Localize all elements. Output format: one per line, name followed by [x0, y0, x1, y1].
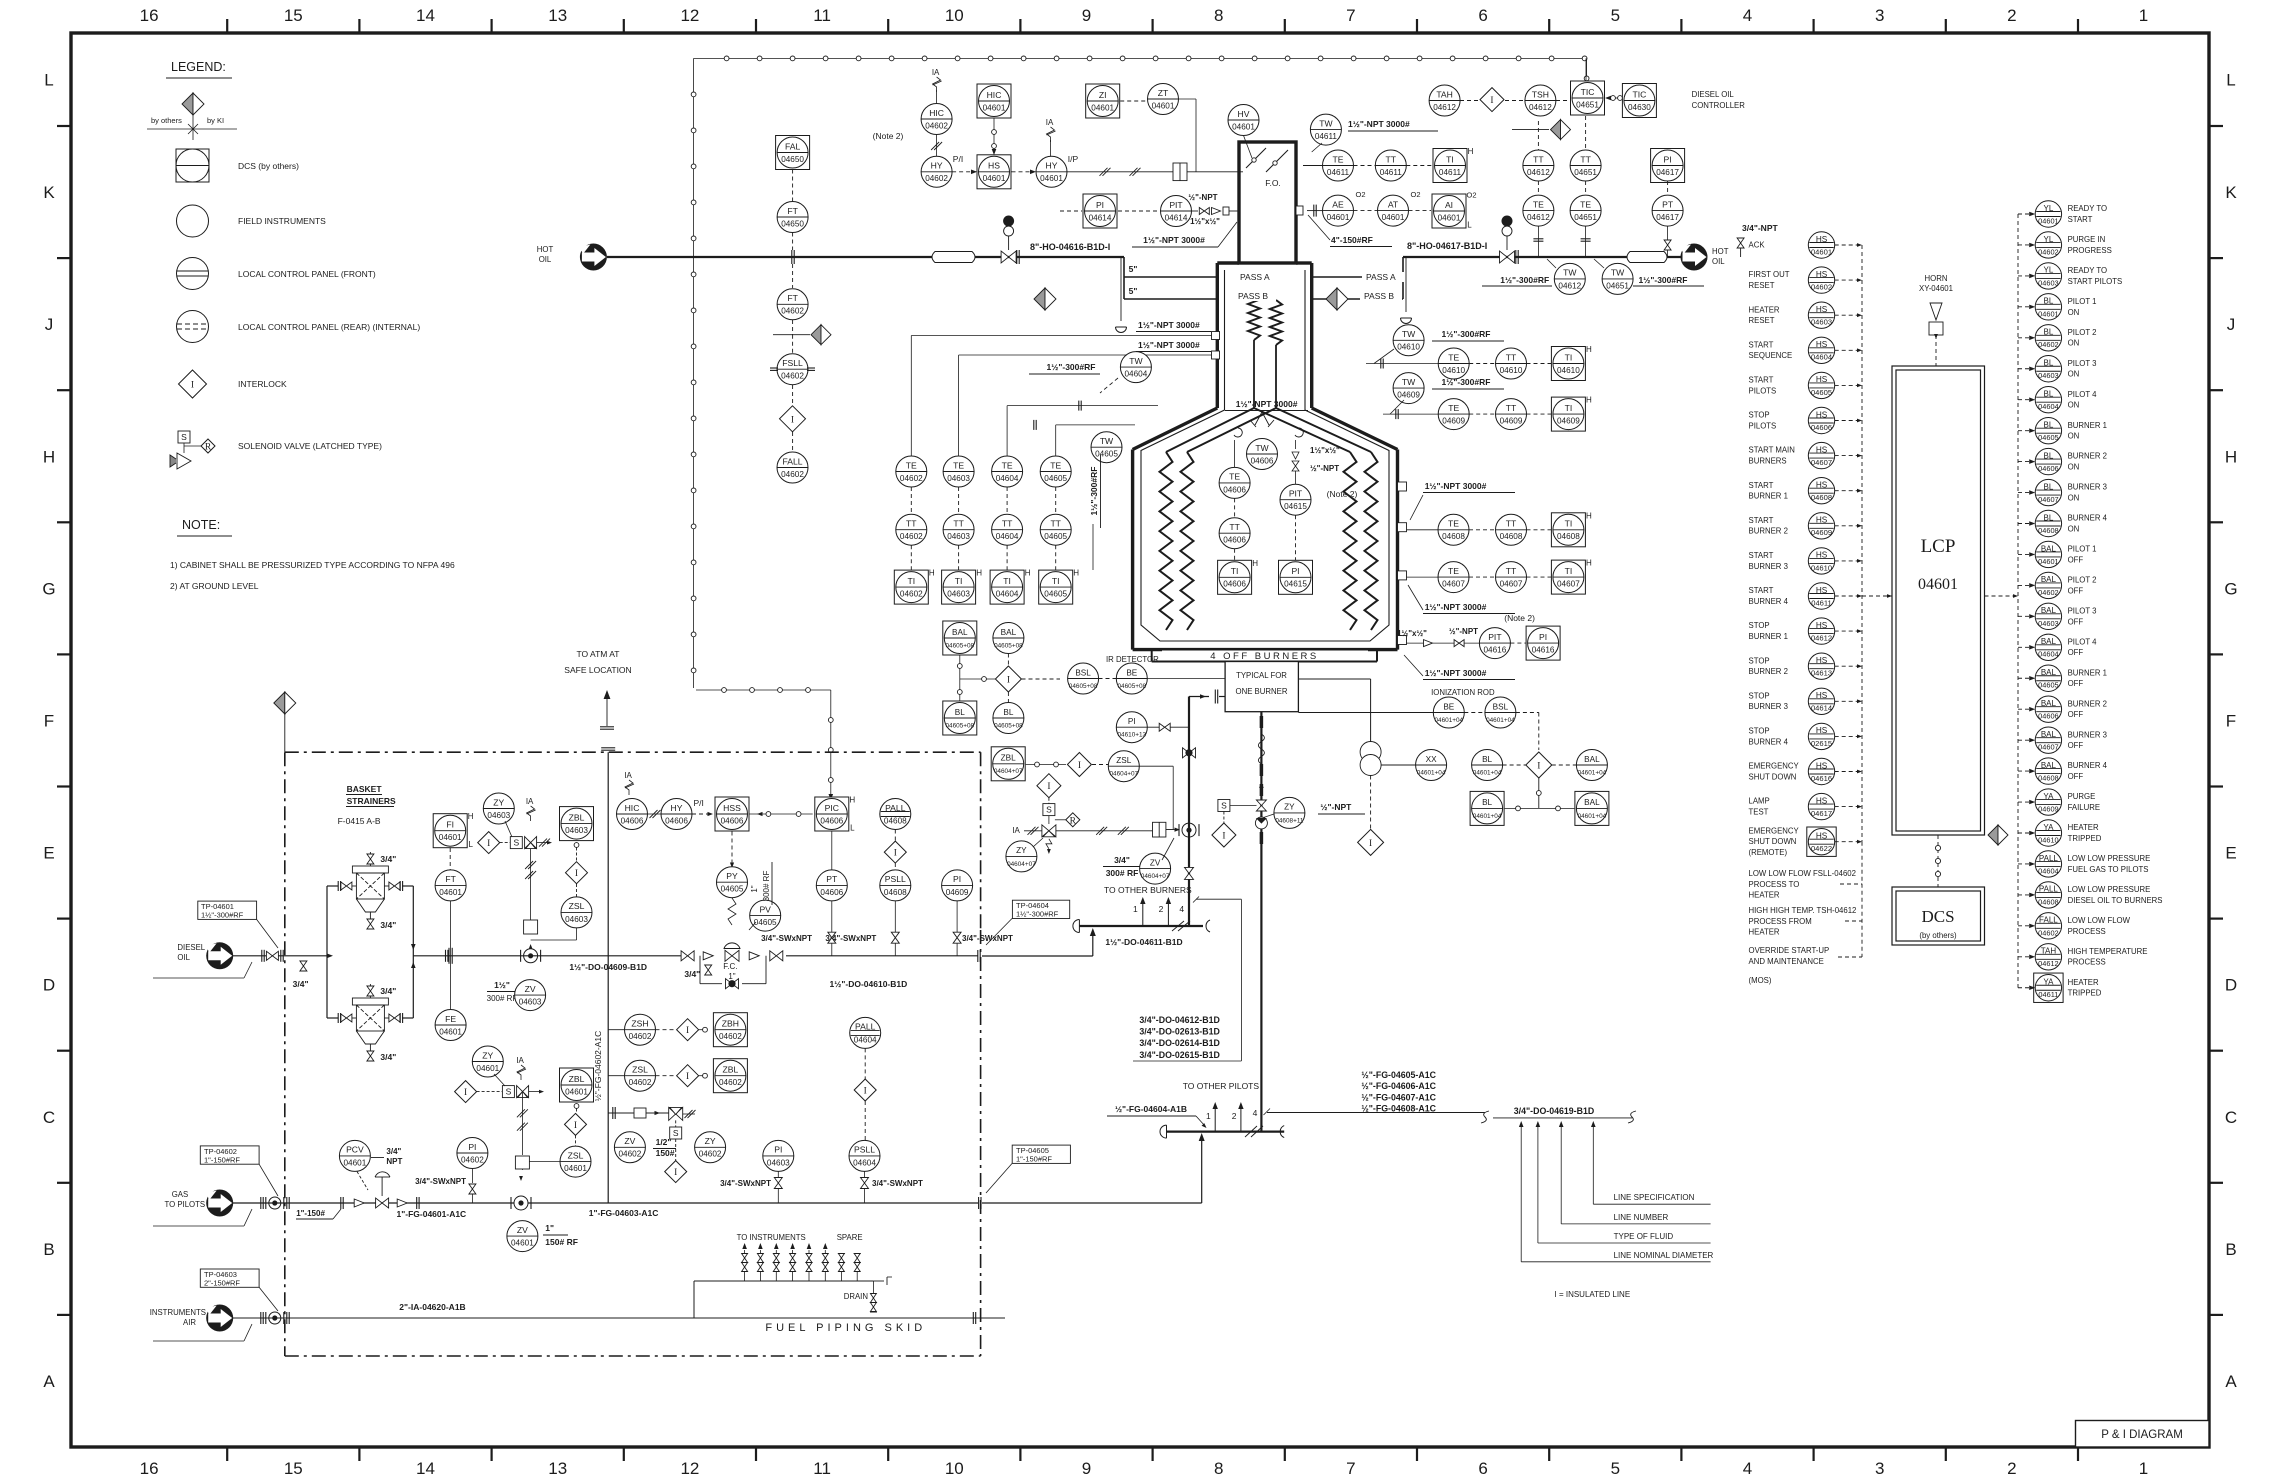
svg-text:04602: 04602 — [2038, 340, 2059, 349]
svg-text:04601: 04601 — [983, 174, 1006, 183]
svg-text:BURNERS: BURNERS — [1749, 457, 1787, 466]
svg-text:STOP: STOP — [1749, 621, 1770, 630]
svg-text:BAL: BAL — [2041, 761, 2057, 770]
svg-text:LEGEND:: LEGEND: — [171, 60, 226, 74]
svg-text:DIESEL OIL: DIESEL OIL — [1692, 90, 1735, 99]
svg-text:04603: 04603 — [767, 1158, 790, 1167]
svg-text:4 OFF BURNERS: 4 OFF BURNERS — [1210, 651, 1319, 662]
svg-text:1½"-NPT 3000#: 1½"-NPT 3000# — [1348, 119, 1410, 129]
svg-text:TE: TE — [1448, 566, 1459, 576]
svg-text:PI: PI — [1539, 632, 1547, 642]
svg-text:IA: IA — [932, 68, 940, 77]
svg-text:ZY: ZY — [705, 1136, 716, 1146]
svg-text:YL: YL — [2044, 235, 2054, 244]
svg-text:LOW LOW FLOW FSLL-04602: LOW LOW FLOW FSLL-04602 — [1749, 869, 1856, 878]
svg-text:04604: 04604 — [853, 1158, 876, 1167]
svg-text:YA: YA — [2043, 823, 2054, 832]
svg-text:04606: 04606 — [1223, 536, 1246, 545]
svg-text:04602: 04602 — [925, 121, 948, 130]
svg-text:1½"-NPT 3000#: 1½"-NPT 3000# — [1143, 235, 1205, 245]
svg-text:ON: ON — [2068, 463, 2080, 472]
svg-text:7: 7 — [1346, 6, 1355, 25]
svg-text:TE: TE — [1533, 199, 1544, 209]
svg-text:HEATER: HEATER — [1749, 891, 1780, 900]
svg-text:3/4"-SWxNPT: 3/4"-SWxNPT — [872, 1179, 923, 1188]
svg-text:6: 6 — [1478, 6, 1487, 25]
svg-text:OIL: OIL — [177, 953, 190, 962]
svg-text:TW: TW — [1563, 268, 1577, 278]
svg-text:8: 8 — [1214, 6, 1223, 25]
svg-text:04613: 04613 — [1811, 669, 1832, 678]
svg-text:04614: 04614 — [1165, 213, 1188, 222]
svg-text:HS: HS — [1816, 340, 1828, 349]
svg-text:START: START — [1749, 340, 1774, 349]
svg-text:9: 9 — [1082, 1459, 1091, 1478]
svg-text:I: I — [1490, 96, 1493, 106]
svg-text:AT: AT — [1388, 199, 1399, 209]
svg-text:04617: 04617 — [1811, 809, 1832, 818]
svg-text:½"-FG-04606-A1C: ½"-FG-04606-A1C — [1361, 1081, 1436, 1091]
svg-text:PASS B: PASS B — [1238, 291, 1268, 301]
svg-text:13: 13 — [548, 1459, 567, 1478]
svg-text:2"-IA-04620-A1B: 2"-IA-04620-A1B — [399, 1302, 465, 1312]
svg-text:H: H — [1025, 569, 1031, 578]
svg-text:1½"-NPT 3000#: 1½"-NPT 3000# — [1425, 481, 1487, 491]
svg-text:BL: BL — [1482, 755, 1492, 764]
svg-text:BE: BE — [1443, 702, 1454, 711]
svg-text:S: S — [506, 1087, 512, 1097]
svg-text:BL: BL — [955, 708, 965, 717]
svg-text:04601: 04601 — [1152, 101, 1175, 110]
svg-text:FIRST OUT: FIRST OUT — [1749, 270, 1790, 279]
svg-text:04601: 04601 — [2038, 216, 2059, 225]
svg-text:04610: 04610 — [1557, 366, 1580, 375]
svg-text:C: C — [2225, 1108, 2237, 1127]
svg-text:TAH: TAH — [1436, 89, 1453, 99]
svg-text:3/4": 3/4" — [380, 854, 396, 864]
svg-text:04603: 04603 — [2038, 371, 2059, 380]
svg-text:04601+04: 04601+04 — [1473, 813, 1502, 820]
svg-text:ON: ON — [2068, 308, 2080, 317]
svg-text:TI: TI — [1565, 403, 1573, 413]
svg-text:ON: ON — [2068, 524, 2080, 533]
svg-text:PCV: PCV — [346, 1145, 364, 1155]
svg-text:LAMP: LAMP — [1749, 797, 1770, 806]
svg-text:START: START — [1749, 586, 1774, 595]
svg-text:FALL: FALL — [2039, 916, 2058, 925]
svg-text:04609: 04609 — [1500, 417, 1523, 426]
svg-text:OFF: OFF — [2068, 741, 2084, 750]
svg-text:1½"-DO-04610-B1D: 1½"-DO-04610-B1D — [830, 979, 908, 989]
svg-text:04607: 04607 — [1557, 580, 1580, 589]
svg-text:I: I — [1369, 839, 1372, 849]
svg-text:04601: 04601 — [1438, 213, 1461, 222]
svg-text:H: H — [1586, 559, 1592, 568]
svg-text:PALL: PALL — [2039, 885, 2059, 894]
svg-text:1½"-300#RF: 1½"-300#RF — [1500, 275, 1549, 285]
svg-text:STOP: STOP — [1749, 691, 1770, 700]
svg-text:START: START — [2068, 215, 2093, 224]
svg-text:04608: 04608 — [2038, 774, 2059, 783]
svg-text:4: 4 — [1743, 6, 1752, 25]
svg-text:TI: TI — [1565, 519, 1573, 529]
svg-text:TYPE OF FLUID: TYPE OF FLUID — [1614, 1232, 1674, 1241]
svg-text:ZV: ZV — [624, 1136, 635, 1146]
svg-text:1½"-300#RF: 1½"-300#RF — [1442, 329, 1491, 339]
svg-text:I: I — [1537, 762, 1540, 772]
svg-text:04601: 04601 — [2038, 557, 2059, 566]
svg-text:15: 15 — [284, 1459, 303, 1478]
svg-text:1½"-NPT 3000#: 1½"-NPT 3000# — [1425, 602, 1487, 612]
svg-text:TT: TT — [1229, 522, 1240, 532]
svg-text:LINE NUMBER: LINE NUMBER — [1614, 1213, 1669, 1222]
svg-text:TRIPPED: TRIPPED — [2068, 989, 2102, 998]
svg-text:04611: 04611 — [1327, 168, 1350, 177]
svg-text:BL: BL — [1003, 708, 1013, 717]
svg-text:½"-FG-04607-A1C: ½"-FG-04607-A1C — [1361, 1092, 1436, 1102]
svg-text:04609: 04609 — [1442, 417, 1465, 426]
svg-text:3/4"-DO-02614-B1D: 3/4"-DO-02614-B1D — [1139, 1038, 1219, 1048]
svg-text:TE: TE — [1333, 154, 1344, 164]
svg-text:TE: TE — [1448, 519, 1459, 529]
svg-text:PASS B: PASS B — [1364, 291, 1394, 301]
svg-text:04616: 04616 — [1811, 774, 1832, 783]
svg-text:H: H — [929, 569, 935, 578]
svg-text:ZV: ZV — [1150, 858, 1161, 867]
svg-text:TEST: TEST — [1749, 808, 1769, 817]
svg-text:G: G — [42, 579, 55, 598]
svg-text:TW: TW — [1611, 268, 1625, 278]
svg-text:04601: 04601 — [565, 1087, 588, 1096]
svg-text:BURNER 1: BURNER 1 — [2068, 421, 2107, 430]
svg-text:04605: 04605 — [721, 885, 744, 894]
svg-text:½"-NPT: ½"-NPT — [1310, 464, 1339, 473]
svg-text:P/I: P/I — [693, 798, 703, 808]
svg-text:J: J — [45, 315, 54, 334]
svg-text:TE: TE — [1002, 460, 1013, 470]
svg-text:by others: by others — [151, 116, 182, 125]
svg-text:PIT: PIT — [1169, 200, 1183, 210]
svg-text:04607: 04607 — [1442, 580, 1465, 589]
svg-text:TE: TE — [1448, 352, 1459, 362]
svg-text:EMERGENCY: EMERGENCY — [1749, 762, 1800, 771]
svg-text:BAL: BAL — [2041, 730, 2057, 739]
svg-text:04608+11: 04608+11 — [1275, 817, 1304, 824]
svg-text:FT: FT — [787, 206, 798, 216]
svg-text:04606: 04606 — [1811, 423, 1832, 432]
svg-text:04601+04: 04601+04 — [1578, 769, 1607, 776]
svg-text:1½"x½": 1½"x½" — [1397, 629, 1427, 638]
svg-text:04601: 04601 — [1091, 103, 1114, 112]
svg-text:04605+08: 04605+08 — [994, 642, 1023, 649]
svg-text:2: 2 — [2007, 1459, 2016, 1478]
svg-text:I: I — [791, 415, 794, 425]
svg-text:PROCESS TO: PROCESS TO — [1749, 880, 1800, 889]
svg-text:I = INSULATED LINE: I = INSULATED LINE — [1555, 1290, 1631, 1299]
svg-text:ZBL: ZBL — [723, 1065, 739, 1075]
svg-text:HY: HY — [671, 803, 683, 813]
svg-text:11: 11 — [813, 6, 831, 25]
svg-text:H: H — [1073, 569, 1079, 578]
svg-text:04603: 04603 — [565, 826, 588, 835]
svg-text:S: S — [1221, 801, 1227, 811]
svg-text:BL: BL — [2044, 482, 2054, 491]
svg-text:04601: 04601 — [439, 833, 462, 842]
svg-text:DCS (by others): DCS (by others) — [238, 161, 299, 171]
svg-text:04651: 04651 — [1576, 100, 1599, 109]
svg-text:04606: 04606 — [1223, 580, 1246, 589]
svg-text:DIESEL OIL TO BURNERS: DIESEL OIL TO BURNERS — [2068, 896, 2163, 905]
svg-text:04606: 04606 — [2038, 712, 2059, 721]
svg-text:LOCAL CONTROL PANEL (FRONT): LOCAL CONTROL PANEL (FRONT) — [238, 269, 376, 279]
svg-text:TI: TI — [1565, 566, 1573, 576]
svg-text:9: 9 — [1082, 6, 1091, 25]
svg-text:ZBL: ZBL — [569, 1074, 585, 1084]
svg-text:04605: 04605 — [1044, 590, 1067, 599]
svg-text:TE: TE — [953, 460, 964, 470]
svg-text:04608: 04608 — [884, 816, 907, 825]
svg-text:04602: 04602 — [900, 532, 923, 541]
svg-text:ON: ON — [2068, 401, 2080, 410]
svg-text:5": 5" — [1129, 286, 1138, 296]
svg-text:BL: BL — [1482, 798, 1492, 807]
svg-text:LINE SPECIFICATION: LINE SPECIFICATION — [1614, 1193, 1695, 1202]
svg-text:(Note 2): (Note 2) — [1327, 489, 1358, 499]
svg-text:OFF: OFF — [2068, 555, 2084, 564]
svg-text:YA: YA — [2043, 792, 2054, 801]
svg-text:04608: 04608 — [1557, 532, 1580, 541]
svg-text:BURNER 4: BURNER 4 — [2068, 514, 2108, 523]
svg-text:START MAIN: START MAIN — [1749, 446, 1795, 455]
svg-text:H: H — [1586, 396, 1592, 405]
svg-text:OFF: OFF — [2068, 648, 2084, 657]
svg-text:04615: 04615 — [1284, 502, 1307, 511]
svg-text:RESET: RESET — [1749, 316, 1775, 325]
svg-text:04605+08: 04605+08 — [1069, 683, 1098, 690]
svg-text:HOT: HOT — [537, 245, 554, 254]
svg-text:L: L — [44, 71, 53, 90]
svg-text:3/4"-NPT: 3/4"-NPT — [1742, 223, 1778, 233]
svg-text:PIT: PIT — [1488, 632, 1502, 642]
svg-text:I: I — [686, 1072, 689, 1082]
svg-text:YA: YA — [2043, 978, 2054, 987]
svg-text:PI: PI — [468, 1142, 476, 1152]
svg-text:TO OTHER BURNERS: TO OTHER BURNERS — [1104, 885, 1192, 895]
svg-text:BURNER 4: BURNER 4 — [1749, 737, 1789, 746]
svg-text:R: R — [205, 443, 212, 453]
svg-text:BAL: BAL — [1001, 628, 1017, 637]
svg-text:2: 2 — [2007, 6, 2016, 25]
svg-text:04602: 04602 — [900, 474, 923, 483]
svg-text:04603: 04603 — [565, 915, 588, 924]
svg-text:TT: TT — [1580, 154, 1591, 164]
svg-text:04602: 04602 — [619, 1150, 642, 1159]
svg-text:04607: 04607 — [1811, 458, 1832, 467]
svg-text:04603: 04603 — [947, 590, 970, 599]
svg-text:TI: TI — [1446, 154, 1454, 164]
svg-text:7: 7 — [1346, 1459, 1355, 1478]
svg-text:BAL: BAL — [2041, 544, 2057, 553]
svg-text:04601: 04601 — [564, 1164, 587, 1173]
svg-text:BURNER 4: BURNER 4 — [1749, 597, 1789, 606]
svg-text:04609: 04609 — [2038, 804, 2059, 813]
svg-text:13: 13 — [548, 6, 567, 25]
svg-text:1½"x½": 1½"x½" — [1190, 217, 1220, 226]
svg-text:5: 5 — [1611, 1459, 1620, 1478]
svg-text:IONIZATION ROD: IONIZATION ROD — [1431, 688, 1495, 697]
svg-text:START: START — [1749, 376, 1774, 385]
svg-text:04602: 04602 — [781, 307, 804, 316]
svg-text:by KI: by KI — [207, 116, 224, 125]
svg-text:04611: 04611 — [1811, 598, 1832, 607]
svg-text:04604+07: 04604+07 — [994, 768, 1023, 775]
svg-text:HOT: HOT — [1712, 247, 1729, 256]
svg-text:BURNER 1: BURNER 1 — [2068, 668, 2107, 677]
svg-text:04602: 04602 — [719, 1078, 742, 1087]
svg-text:14: 14 — [416, 6, 435, 25]
svg-text:04607: 04607 — [2038, 495, 2059, 504]
svg-text:2"-150#RF: 2"-150#RF — [204, 1279, 240, 1288]
svg-text:04601: 04601 — [344, 1158, 367, 1167]
svg-text:04608: 04608 — [1442, 532, 1465, 541]
svg-text:2: 2 — [1232, 1111, 1237, 1121]
svg-text:1: 1 — [1133, 904, 1138, 914]
svg-text:DCS: DCS — [1921, 907, 1954, 926]
svg-text:TE: TE — [1448, 403, 1459, 413]
svg-text:04604+07: 04604+07 — [1007, 861, 1036, 868]
svg-text:1/2": 1/2" — [656, 1137, 672, 1147]
svg-text:04622: 04622 — [1811, 844, 1832, 853]
svg-text:HEATER: HEATER — [2068, 978, 2099, 987]
svg-text:04604: 04604 — [996, 590, 1019, 599]
svg-text:3: 3 — [1875, 6, 1884, 25]
svg-text:3/4": 3/4" — [380, 986, 396, 996]
svg-text:1": 1" — [750, 885, 759, 892]
svg-text:HS: HS — [1816, 656, 1828, 665]
svg-text:HEATER: HEATER — [1749, 305, 1780, 314]
svg-text:HIC: HIC — [625, 803, 640, 813]
svg-text:8: 8 — [1214, 1459, 1223, 1478]
svg-text:11: 11 — [813, 1459, 831, 1478]
svg-text:YL: YL — [2044, 204, 2054, 213]
svg-text:HIGH TEMPERATURE: HIGH TEMPERATURE — [2068, 947, 2148, 956]
svg-text:HS: HS — [988, 161, 1000, 171]
svg-text:H: H — [1468, 147, 1474, 156]
svg-text:ZV: ZV — [517, 1225, 528, 1235]
svg-text:04603: 04603 — [2038, 619, 2059, 628]
svg-text:TO PILOTS: TO PILOTS — [165, 1200, 206, 1209]
svg-text:HIC: HIC — [987, 90, 1002, 100]
svg-text:TT: TT — [1506, 519, 1517, 529]
svg-text:2: 2 — [1159, 904, 1164, 914]
svg-text:PI: PI — [1128, 717, 1136, 726]
svg-text:SHUT DOWN: SHUT DOWN — [1749, 837, 1797, 846]
svg-text:TE: TE — [1229, 472, 1240, 482]
svg-text:PROCESS FROM: PROCESS FROM — [1749, 917, 1812, 926]
svg-text:AE: AE — [1332, 199, 1344, 209]
svg-text:IA: IA — [526, 797, 534, 806]
svg-text:ONE BURNER: ONE BURNER — [1236, 687, 1288, 696]
svg-text:1½"-NPT 3000#: 1½"-NPT 3000# — [1138, 340, 1200, 350]
svg-text:04602: 04602 — [900, 590, 923, 599]
svg-text:TO INSTRUMENTS: TO INSTRUMENTS — [737, 1233, 806, 1242]
svg-text:3/4"-SWxNPT: 3/4"-SWxNPT — [720, 1179, 771, 1188]
svg-text:PT: PT — [1662, 199, 1674, 209]
svg-text:I: I — [191, 381, 194, 391]
svg-text:BAL: BAL — [952, 628, 968, 637]
svg-text:OVERRIDE START-UP: OVERRIDE START-UP — [1749, 946, 1830, 955]
svg-text:TT: TT — [1533, 154, 1544, 164]
svg-text:SHUT DOWN: SHUT DOWN — [1749, 772, 1797, 781]
svg-text:PURGE IN: PURGE IN — [2068, 235, 2106, 244]
svg-text:SPARE: SPARE — [837, 1233, 863, 1242]
svg-text:04601: 04601 — [1232, 122, 1255, 131]
svg-text:½"-FG-04605-A1C: ½"-FG-04605-A1C — [1361, 1070, 1436, 1080]
svg-text:04612: 04612 — [1529, 103, 1552, 112]
svg-text:1½"-300#RF: 1½"-300#RF — [201, 911, 244, 920]
svg-text:HS: HS — [1816, 235, 1828, 244]
svg-text:04605: 04605 — [2038, 433, 2059, 442]
svg-text:INSTRUMENTS: INSTRUMENTS — [150, 1308, 206, 1317]
svg-text:PILOT 2: PILOT 2 — [2068, 576, 2097, 585]
svg-text:04605: 04605 — [1095, 450, 1118, 459]
svg-text:04610+13: 04610+13 — [1117, 732, 1146, 739]
svg-text:INTERLOCK: INTERLOCK — [238, 379, 287, 389]
svg-text:TW: TW — [1129, 356, 1143, 366]
svg-text:TI: TI — [1003, 576, 1011, 586]
svg-text:1) CABINET SHALL BE PRESSURIZE: 1) CABINET SHALL BE PRESSURIZED TYPE ACC… — [170, 560, 455, 570]
svg-text:04605: 04605 — [1811, 388, 1832, 397]
svg-text:PSLL: PSLL — [854, 1145, 875, 1155]
svg-text:PROCESS: PROCESS — [2068, 958, 2106, 967]
svg-text:BAL: BAL — [1584, 798, 1600, 807]
svg-text:04608: 04608 — [2038, 526, 2059, 535]
svg-text:1½"-300#RF: 1½"-300#RF — [1089, 467, 1099, 516]
svg-text:ZSH: ZSH — [631, 1019, 648, 1029]
svg-text:PV: PV — [759, 904, 771, 914]
svg-text:04612: 04612 — [1811, 634, 1832, 643]
svg-text:S: S — [181, 432, 187, 442]
svg-text:04612: 04612 — [1527, 168, 1550, 177]
svg-text:(Note 2): (Note 2) — [873, 131, 904, 141]
svg-text:H: H — [1252, 559, 1258, 568]
svg-text:AND MAINTENANCE: AND MAINTENANCE — [1749, 957, 1824, 966]
svg-text:5: 5 — [1611, 6, 1620, 25]
svg-text:04601+04: 04601+04 — [1578, 813, 1607, 820]
svg-text:TW: TW — [1100, 436, 1114, 446]
svg-text:1½": 1½" — [494, 980, 510, 990]
svg-text:PI: PI — [953, 874, 961, 884]
svg-text:04608: 04608 — [884, 888, 907, 897]
svg-text:BL: BL — [2044, 451, 2054, 460]
svg-text:PY: PY — [726, 871, 738, 881]
svg-text:H: H — [1586, 345, 1592, 354]
svg-text:BAL: BAL — [2041, 699, 2057, 708]
svg-text:½"-NPT: ½"-NPT — [1449, 627, 1478, 636]
svg-text:PALL: PALL — [885, 803, 906, 813]
svg-text:BE: BE — [1126, 668, 1137, 677]
svg-text:PASS A: PASS A — [1240, 272, 1270, 282]
svg-text:I/P: I/P — [1068, 154, 1079, 164]
svg-text:1"-FG-04603-A1C: 1"-FG-04603-A1C — [589, 1208, 659, 1218]
svg-text:ON: ON — [2068, 432, 2080, 441]
svg-text:300# RF: 300# RF — [762, 871, 771, 902]
svg-text:1½"-300#RF: 1½"-300#RF — [1442, 377, 1491, 387]
svg-text:I: I — [894, 849, 897, 859]
svg-text:TO ATM AT: TO ATM AT — [577, 649, 620, 659]
svg-text:PILOT 1: PILOT 1 — [2068, 297, 2097, 306]
svg-text:04606: 04606 — [1223, 485, 1246, 494]
